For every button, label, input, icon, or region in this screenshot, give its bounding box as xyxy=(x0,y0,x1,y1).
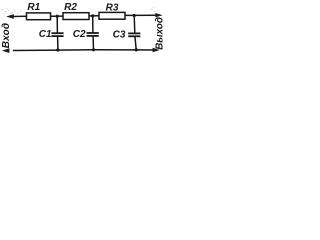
node: junction dot C3 top xyxy=(133,14,136,17)
node: junction dot C2 bottom xyxy=(92,48,95,51)
svg-text:Вход: Вход xyxy=(1,23,12,49)
svg-text:C1: C1 xyxy=(39,29,52,40)
output arrow bottom-right xyxy=(153,48,160,52)
node: junction dot C2 top xyxy=(91,14,94,17)
input arrow top-left xyxy=(6,14,27,19)
resistor R3 xyxy=(99,12,125,19)
node: junction dot C1 bottom xyxy=(56,48,59,51)
wire R3 to output xyxy=(125,14,157,16)
svg-text:Выход: Выход xyxy=(155,17,164,50)
node: junction dot C3 bottom xyxy=(135,48,138,51)
output arrow top-right xyxy=(155,13,162,17)
node: junction dot C1 top xyxy=(56,15,59,18)
svg-text:R3: R3 xyxy=(106,2,119,13)
svg-text:C3: C3 xyxy=(113,30,126,41)
svg-text:C2: C2 xyxy=(73,29,86,40)
resistor R2 xyxy=(63,13,89,20)
resistor R1 xyxy=(27,13,51,20)
capacitor C1 xyxy=(51,16,63,50)
wire R2 to R3 xyxy=(89,15,99,17)
input arrow bottom-left xyxy=(2,48,10,53)
svg-text:R2: R2 xyxy=(64,2,77,13)
bottom rail wire xyxy=(13,49,154,52)
capacitor C3 xyxy=(128,16,140,50)
svg-text:R1: R1 xyxy=(27,2,40,13)
wire R1 to R2 xyxy=(51,15,64,17)
capacitor C2 xyxy=(87,16,99,50)
